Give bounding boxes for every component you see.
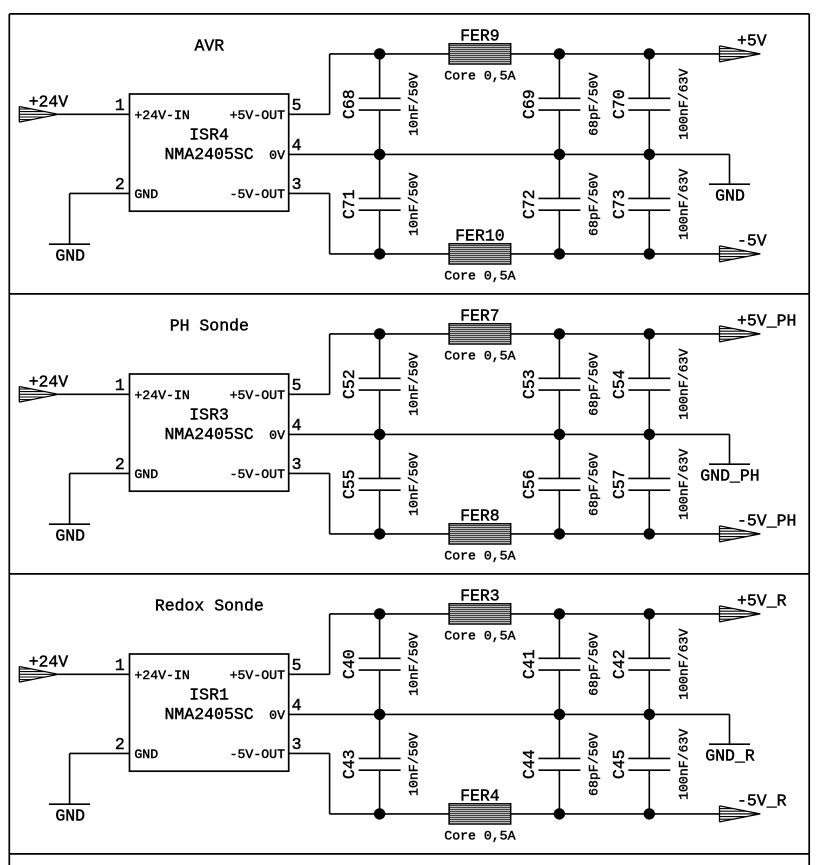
junction [374, 608, 385, 619]
svg-text:68pF/50V: 68pF/50V [586, 453, 601, 516]
capacitor C52 [359, 378, 401, 390]
capacitor C45 [628, 758, 670, 770]
svg-text:GND: GND [134, 467, 158, 482]
capacitor C40 [359, 658, 401, 670]
input arrow +24V [19, 387, 58, 403]
wire pin 2 to ground [70, 472, 130, 474]
svg-text:1: 1 [115, 96, 125, 115]
junction [644, 528, 655, 539]
svg-text:NMA2405SC: NMA2405SC [165, 145, 254, 164]
svg-text:C69: C69 [520, 89, 539, 119]
wire pin 5 [289, 113, 330, 115]
wire +24V input to pin 1 [59, 393, 130, 395]
wire C52 top lead [379, 334, 381, 378]
wire -5V rail after FER4 [511, 813, 720, 815]
wire C45 bottom lead [648, 770, 650, 814]
wire C44 bottom lead [558, 770, 560, 814]
svg-text:C73: C73 [610, 189, 629, 219]
ground GND_R [709, 743, 750, 745]
wire C73 top lead [648, 154, 650, 198]
wire riser to +5V rail [329, 334, 331, 394]
ground GND [49, 523, 90, 525]
wire riser to -5V rail [329, 473, 331, 534]
wire riser to -5V rail [329, 753, 331, 814]
svg-text:Redox Sonde: Redox Sonde [155, 596, 264, 615]
svg-text:3: 3 [292, 735, 302, 754]
junction [554, 429, 565, 440]
capacitor C44 [538, 758, 580, 770]
wire C71 top lead [379, 154, 381, 198]
svg-text:Core 0,5A: Core 0,5A [444, 69, 515, 84]
wire ground drop [69, 473, 71, 524]
ground GND_PH [709, 463, 750, 465]
svg-text:4: 4 [292, 136, 302, 155]
junction [644, 248, 655, 259]
svg-text:+5V_R: +5V_R [737, 592, 787, 611]
wire 0V rail [289, 433, 730, 435]
wire C73 bottom lead [648, 210, 650, 254]
svg-text:5: 5 [292, 656, 302, 675]
wire C70 top lead [648, 54, 650, 98]
svg-text:68pF/50V: 68pF/50V [586, 733, 601, 796]
wire C45 top lead [648, 714, 650, 758]
junction [374, 248, 385, 259]
svg-text:100nF/63V: 100nF/63V [676, 449, 691, 520]
junction [554, 248, 565, 259]
svg-text:GND: GND [134, 187, 158, 202]
capacitor C69 [538, 98, 580, 110]
wire pin 2 to ground [70, 752, 130, 754]
svg-text:100nF/63V: 100nF/63V [676, 69, 691, 140]
svg-text:68pF/50V: 68pF/50V [586, 632, 601, 695]
svg-text:ISR3: ISR3 [189, 406, 229, 425]
wire C57 top lead [648, 434, 650, 478]
svg-text:+24V-IN: +24V-IN [134, 668, 189, 683]
wire C53 bottom lead [558, 390, 560, 434]
junction [374, 709, 385, 720]
junction [644, 608, 655, 619]
wire 0V to ground [729, 154, 731, 184]
svg-text:68pF/50V: 68pF/50V [586, 352, 601, 415]
wire +5V rail [330, 333, 450, 335]
svg-text:10nF/50V: 10nF/50V [407, 733, 422, 796]
svg-text:1: 1 [115, 376, 125, 395]
svg-text:5: 5 [292, 96, 302, 115]
svg-text:C53: C53 [520, 369, 539, 399]
svg-text:+5V-OUT: +5V-OUT [230, 108, 285, 123]
DC-DC converter ISR3 NMA2405SC [130, 374, 289, 491]
capacitor C56 [538, 478, 580, 490]
svg-text:GND: GND [134, 747, 158, 762]
wire C43 bottom lead [379, 770, 381, 814]
svg-text:C55: C55 [340, 469, 359, 499]
junction [554, 149, 565, 160]
wire -5V rail [330, 533, 450, 535]
svg-text:-5V-OUT: -5V-OUT [230, 747, 285, 762]
input arrow +24V [19, 107, 58, 123]
wire C42 top lead [648, 614, 650, 658]
wire C40 bottom lead [379, 670, 381, 714]
wire C41 bottom lead [558, 670, 560, 714]
wire C41 top lead [558, 614, 560, 658]
wire +5V rail [330, 613, 450, 615]
svg-text:10nF/50V: 10nF/50V [407, 352, 422, 415]
wire 0V rail [289, 153, 730, 155]
ferrite bead FER10 [449, 244, 511, 264]
wire C43 top lead [379, 714, 381, 758]
junction [644, 429, 655, 440]
wire C52 bottom lead [379, 390, 381, 434]
wire C55 bottom lead [379, 490, 381, 534]
ground GND [709, 183, 750, 185]
wire -5V rail after FER10 [511, 253, 720, 255]
DC-DC converter ISR1 NMA2405SC [130, 654, 289, 771]
svg-text:ISR4: ISR4 [189, 126, 229, 145]
svg-text:C71: C71 [340, 189, 359, 219]
ground GND [49, 243, 90, 245]
svg-text:68pF/50V: 68pF/50V [586, 72, 601, 135]
output arrow +5V_PH [720, 326, 761, 342]
wire +5V rail after FER7 [511, 333, 720, 335]
svg-text:PH Sonde: PH Sonde [170, 316, 249, 335]
wire C54 top lead [648, 334, 650, 378]
wire C57 bottom lead [648, 490, 650, 534]
svg-text:+5V-OUT: +5V-OUT [230, 668, 285, 683]
wire riser to +5V rail [329, 54, 331, 114]
capacitor C68 [359, 98, 401, 110]
svg-text:0V: 0V [269, 428, 285, 443]
svg-text:GND: GND [55, 527, 85, 546]
svg-text:Core 0,5A: Core 0,5A [444, 349, 515, 364]
svg-text:FER9: FER9 [460, 26, 500, 45]
ferrite bead FER9 [449, 44, 511, 64]
wire ground drop [69, 193, 71, 244]
capacitor C57 [628, 478, 670, 490]
output arrow +5V [720, 46, 761, 62]
wire C70 bottom lead [648, 110, 650, 154]
svg-text:-5V_PH: -5V_PH [737, 512, 796, 531]
svg-text:FER8: FER8 [460, 506, 500, 525]
svg-text:Core 0,5A: Core 0,5A [444, 549, 515, 564]
svg-text:GND_PH: GND_PH [700, 467, 759, 486]
svg-text:C42: C42 [610, 649, 629, 679]
svg-text:GND_R: GND_R [705, 747, 755, 766]
capacitor C72 [538, 198, 580, 210]
svg-text:68pF/50V: 68pF/50V [586, 173, 601, 236]
junction [554, 328, 565, 339]
svg-text:2: 2 [115, 175, 125, 194]
junction [554, 709, 565, 720]
capacitor C55 [359, 478, 401, 490]
wire riser to -5V rail [329, 193, 331, 254]
capacitor C41 [538, 658, 580, 670]
svg-text:GND: GND [55, 807, 85, 826]
junction [644, 48, 655, 59]
junction [374, 149, 385, 160]
ferrite bead FER4 [449, 804, 511, 824]
svg-text:10nF/50V: 10nF/50V [407, 173, 422, 236]
junction [644, 808, 655, 819]
junction [554, 48, 565, 59]
svg-text:10nF/50V: 10nF/50V [407, 632, 422, 695]
svg-text:0V: 0V [269, 148, 285, 163]
svg-text:FER7: FER7 [460, 306, 500, 325]
svg-text:C72: C72 [520, 189, 539, 219]
wire C69 bottom lead [558, 110, 560, 154]
svg-text:4: 4 [292, 416, 302, 435]
ferrite bead FER7 [449, 324, 511, 344]
output arrow -5V [720, 246, 761, 262]
wire C40 top lead [379, 614, 381, 658]
capacitor C73 [628, 198, 670, 210]
svg-text:-5V-OUT: -5V-OUT [230, 467, 285, 482]
svg-text:+5V: +5V [737, 32, 767, 51]
wire 0V rail [289, 713, 730, 715]
junction [644, 328, 655, 339]
svg-text:Core 0,5A: Core 0,5A [444, 629, 515, 644]
svg-text:4: 4 [292, 696, 302, 715]
svg-text:-5V_R: -5V_R [737, 792, 787, 811]
svg-text:C41: C41 [520, 649, 539, 679]
capacitor C42 [628, 658, 670, 670]
svg-text:Core 0,5A: Core 0,5A [444, 829, 515, 844]
wire +24V input to pin 1 [59, 113, 130, 115]
svg-text:0V: 0V [269, 708, 285, 723]
wire pin 3 [289, 472, 330, 474]
svg-text:1: 1 [115, 656, 125, 675]
wire C69 top lead [558, 54, 560, 98]
wire C56 top lead [558, 434, 560, 478]
junction [374, 808, 385, 819]
input arrow +24V [19, 667, 58, 683]
svg-text:-5V-OUT: -5V-OUT [230, 187, 285, 202]
svg-text:Core 0,5A: Core 0,5A [444, 269, 515, 284]
svg-text:10nF/50V: 10nF/50V [407, 72, 422, 135]
wire C72 top lead [558, 154, 560, 198]
svg-text:C40: C40 [340, 649, 359, 679]
svg-text:C56: C56 [520, 469, 539, 499]
svg-text:C43: C43 [340, 749, 359, 779]
wire +5V rail [330, 53, 450, 55]
svg-text:+24V-IN: +24V-IN [134, 388, 189, 403]
wire C56 bottom lead [558, 490, 560, 534]
wire C55 top lead [379, 434, 381, 478]
junction [554, 528, 565, 539]
wire C68 top lead [379, 54, 381, 98]
svg-text:C44: C44 [520, 749, 539, 779]
svg-text:+5V_PH: +5V_PH [737, 312, 796, 331]
wire -5V rail [330, 813, 450, 815]
svg-text:FER4: FER4 [460, 786, 500, 805]
svg-text:C57: C57 [610, 469, 629, 499]
svg-text:2: 2 [115, 455, 125, 474]
svg-text:3: 3 [292, 175, 302, 194]
svg-text:+24V: +24V [29, 93, 69, 112]
svg-text:+24V: +24V [29, 653, 69, 672]
ground GND [49, 803, 90, 805]
svg-text:100nF/63V: 100nF/63V [676, 169, 691, 240]
svg-text:2: 2 [115, 735, 125, 754]
svg-text:C68: C68 [340, 89, 359, 119]
svg-text:+24V-IN: +24V-IN [134, 108, 189, 123]
svg-text:FER3: FER3 [460, 586, 500, 605]
svg-text:100nF/63V: 100nF/63V [676, 729, 691, 800]
svg-text:3: 3 [292, 455, 302, 474]
wire 0V to ground [729, 714, 731, 744]
svg-text:NMA2405SC: NMA2405SC [165, 705, 254, 724]
wire +5V rail after FER9 [511, 53, 720, 55]
wire C53 top lead [558, 334, 560, 378]
wire 0V to ground [729, 434, 731, 464]
svg-text:NMA2405SC: NMA2405SC [165, 425, 254, 444]
wire +24V input to pin 1 [59, 673, 130, 675]
svg-text:100nF/63V: 100nF/63V [676, 349, 691, 420]
junction [644, 709, 655, 720]
svg-text:FER10: FER10 [455, 226, 505, 245]
svg-text:ISR1: ISR1 [189, 686, 229, 705]
junction [374, 328, 385, 339]
wire C71 bottom lead [379, 210, 381, 254]
svg-text:C54: C54 [610, 369, 629, 399]
output arrow -5V_PH [720, 526, 761, 542]
DC-DC converter ISR4 NMA2405SC [130, 94, 289, 211]
junction [644, 149, 655, 160]
capacitor C43 [359, 758, 401, 770]
wire pin 2 to ground [70, 192, 130, 194]
capacitor C53 [538, 378, 580, 390]
svg-text:10nF/50V: 10nF/50V [407, 453, 422, 516]
wire pin 3 [289, 752, 330, 754]
wire pin 3 [289, 192, 330, 194]
svg-text:GND: GND [55, 247, 85, 266]
capacitor C70 [628, 98, 670, 110]
junction [374, 429, 385, 440]
wire pin 5 [289, 673, 330, 675]
svg-text:C45: C45 [610, 749, 629, 779]
svg-text:100nF/63V: 100nF/63V [676, 629, 691, 700]
wire riser to +5V rail [329, 614, 331, 674]
wire C42 bottom lead [648, 670, 650, 714]
svg-text:GND: GND [715, 187, 745, 206]
wire C72 bottom lead [558, 210, 560, 254]
junction [374, 528, 385, 539]
svg-text:AVR: AVR [194, 36, 224, 55]
capacitor C71 [359, 198, 401, 210]
output arrow +5V_R [720, 606, 761, 622]
svg-text:C70: C70 [610, 89, 629, 119]
output arrow -5V_R [720, 806, 761, 822]
junction [374, 48, 385, 59]
wire -5V rail [330, 253, 450, 255]
wire -5V rail after FER8 [511, 533, 720, 535]
wire ground drop [69, 753, 71, 804]
junction [554, 808, 565, 819]
capacitor C54 [628, 378, 670, 390]
wire C68 bottom lead [379, 110, 381, 154]
ferrite bead FER3 [449, 604, 511, 624]
wire C54 bottom lead [648, 390, 650, 434]
svg-text:+5V-OUT: +5V-OUT [230, 388, 285, 403]
svg-text:+24V: +24V [29, 373, 69, 392]
ferrite bead FER8 [449, 524, 511, 544]
svg-text:-5V: -5V [737, 232, 767, 251]
wire pin 5 [289, 393, 330, 395]
svg-text:C52: C52 [340, 369, 359, 399]
wire +5V rail after FER3 [511, 613, 720, 615]
wire C44 top lead [558, 714, 560, 758]
junction [554, 608, 565, 619]
svg-text:5: 5 [292, 376, 302, 395]
